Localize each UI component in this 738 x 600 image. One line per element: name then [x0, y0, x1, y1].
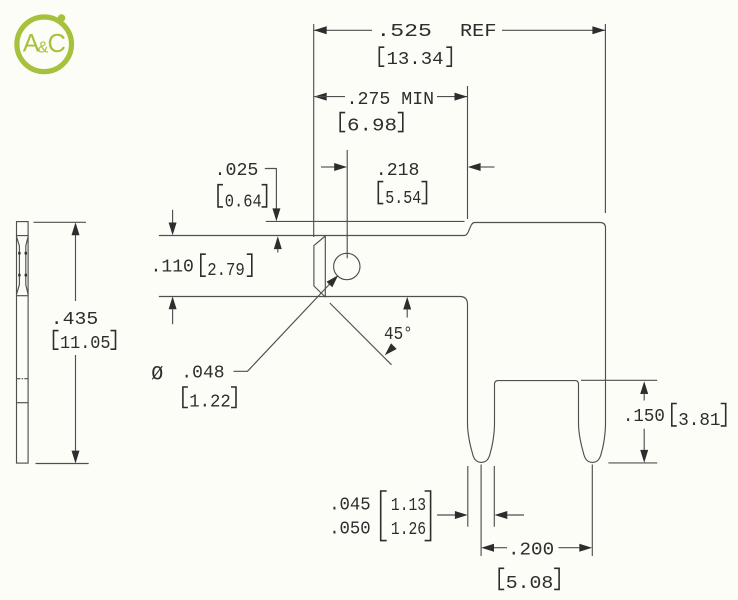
dim .218 left arrow: [334, 163, 347, 171]
dim .150 up arrow stem: [643, 393, 645, 401]
dim .435 metric bracket right: [111, 331, 116, 350]
dim .218 metric bracket left: [378, 182, 383, 204]
dim .275 line right segment: [437, 96, 467, 98]
dim slot metric tall bracket left: [381, 491, 387, 541]
hole leader line: [234, 281, 333, 372]
dim slot width left extension line: [467, 466, 469, 527]
hole leader arrow: [327, 275, 339, 287]
dim .025 leader elbow: [265, 169, 276, 209]
dim .150 up arrow: [640, 381, 648, 394]
dim .435 down arrow: [72, 451, 80, 464]
side view inner line right: [25, 246, 27, 285]
dim .150 metric bracket left: [672, 404, 677, 426]
svg-text:.025: .025: [215, 160, 259, 181]
dim .435 up arrow: [72, 222, 80, 235]
dim .200 left arrow: [481, 544, 494, 552]
side view outer outline: [17, 222, 29, 464]
side view tick marks: [18, 252, 20, 255]
dim .435 metric bracket left: [54, 331, 59, 350]
dim .025 up arrow stem: [277, 249, 279, 253]
dim slot metric tall bracket right: [425, 491, 431, 541]
dim .525 line right segment: [502, 29, 605, 31]
dim .275 metric bracket right: [398, 113, 403, 132]
dim .218 right arrow tail: [481, 166, 495, 168]
dim .275 line left segment: [314, 96, 345, 98]
side view hidden dash line: [17, 378, 29, 380]
dim .110 down arrow: [169, 223, 177, 236]
dim slot width right extension line: [493, 466, 495, 527]
dim .200 left extension line: [480, 465, 482, 557]
dim .525 metric bracket left: [379, 47, 384, 66]
dim .025 extension line: [266, 220, 465, 222]
dim .525 left arrow: [314, 26, 327, 34]
dim .218 right arrow: [468, 163, 481, 171]
svg-text:1.26: 1.26: [391, 519, 426, 540]
svg-text:Ø: Ø: [151, 364, 163, 387]
dim .025 up arrow: [274, 236, 282, 249]
svg-text:.525: .525: [376, 21, 432, 42]
svg-text:0.64: 0.64: [225, 191, 262, 212]
dim .200 line left segment: [494, 547, 507, 549]
dim .110 metric bracket right: [247, 254, 252, 276]
dim .048 metric bracket left: [183, 387, 188, 408]
logo A&C ring: [17, 17, 72, 72]
dim slot width right arrow: [495, 511, 508, 519]
dim .218 left arrow tail: [321, 166, 335, 168]
dim .110 up arrow stem: [172, 308, 174, 324]
dim .200 line right segment: [559, 547, 580, 549]
dim .048 metric bracket right: [231, 387, 236, 408]
dim .150 metric bracket right: [721, 404, 726, 426]
svg-text:.275 MIN: .275 MIN: [347, 89, 435, 110]
dim .150 bottom extension line: [608, 462, 657, 464]
side view line at blade bottom: [17, 295, 29, 297]
side view inner line left: [18, 246, 20, 285]
side view lower chamfer right: [26, 285, 28, 295]
svg-text:.045: .045: [329, 494, 371, 515]
dim .025 down arrow: [272, 208, 280, 221]
svg-text:.050: .050: [329, 519, 371, 540]
dim .200 metric bracket right: [554, 568, 559, 589]
dim .110 metric bracket left: [201, 254, 206, 276]
main part outline (blade, right edge, legs, web): [159, 223, 605, 463]
svg-text:.150: .150: [623, 406, 665, 427]
dim slot width right arrow tail: [507, 514, 524, 516]
dim .025 metric bracket right: [262, 185, 267, 207]
dim .525 line left segment: [314, 29, 372, 31]
svg-text:.048: .048: [181, 362, 224, 383]
svg-text:C: C: [48, 30, 66, 58]
side view neck chamfer right: [26, 237, 28, 246]
lanced tab outline: [314, 236, 325, 297]
dim .435 line lower: [75, 355, 77, 462]
hole: [334, 253, 360, 279]
45 deg up arrow: [403, 297, 411, 310]
svg-text:6.98: 6.98: [347, 115, 397, 136]
dim slot width left arrow tail: [437, 514, 455, 516]
dim .525 right extension line: [604, 24, 606, 213]
dim .200 metric bracket left: [499, 568, 504, 589]
svg-text:45°: 45°: [384, 324, 413, 345]
dim .275 right extension line: [467, 86, 469, 219]
dim .435 top extension line: [34, 221, 87, 223]
45 deg chamfer extension line: [330, 303, 392, 365]
side view neck chamfer left: [17, 237, 20, 246]
svg-text:5.08: 5.08: [506, 573, 554, 594]
svg-text:1.13: 1.13: [391, 495, 426, 516]
svg-text:.110: .110: [151, 257, 194, 278]
svg-text:.200: .200: [508, 539, 554, 560]
dim .218 metric bracket right: [422, 182, 427, 204]
side view leg flare line: [17, 402, 29, 404]
svg-text:2.79: 2.79: [207, 260, 245, 281]
dim .435 line upper: [75, 224, 77, 301]
dim .150 down arrow: [640, 450, 648, 463]
svg-text:REF: REF: [460, 21, 497, 42]
dim .200 right arrow: [579, 544, 592, 552]
dim .218 hole center extension line: [346, 150, 348, 258]
dim .110 up arrow: [169, 296, 177, 309]
svg-text:.435: .435: [51, 309, 98, 330]
svg-text:5.54: 5.54: [385, 188, 421, 209]
dim .275 right arrow: [455, 93, 468, 101]
dim .525 left extension line: [313, 24, 315, 237]
dim .110 down arrow stem: [172, 210, 174, 224]
dim .525 metric bracket right: [446, 47, 451, 66]
dim .200 right extension line: [591, 465, 593, 557]
dim .275 metric bracket left: [340, 113, 345, 132]
logo dot: [58, 14, 66, 22]
dim slot width left arrow: [455, 511, 468, 519]
dim .525 right arrow: [592, 26, 605, 34]
svg-text:.218: .218: [376, 160, 420, 181]
dim .275 left arrow: [314, 93, 327, 101]
side view lower chamfer left: [17, 285, 20, 295]
svg-text:11.05: 11.05: [60, 333, 111, 354]
svg-text:3.81: 3.81: [678, 410, 720, 431]
dim .435 bottom extension line: [36, 463, 89, 465]
side view step line: [17, 235, 29, 237]
45 deg arrow on chamfer line: [385, 343, 397, 355]
dim .025 metric bracket left: [218, 185, 223, 207]
svg-text:1.22: 1.22: [189, 392, 231, 413]
dim .150 top extension line: [581, 379, 657, 381]
svg-text:13.34: 13.34: [387, 49, 444, 70]
dim .150 down arrow stem: [643, 429, 645, 451]
45 deg up arrow stem: [406, 309, 408, 318]
